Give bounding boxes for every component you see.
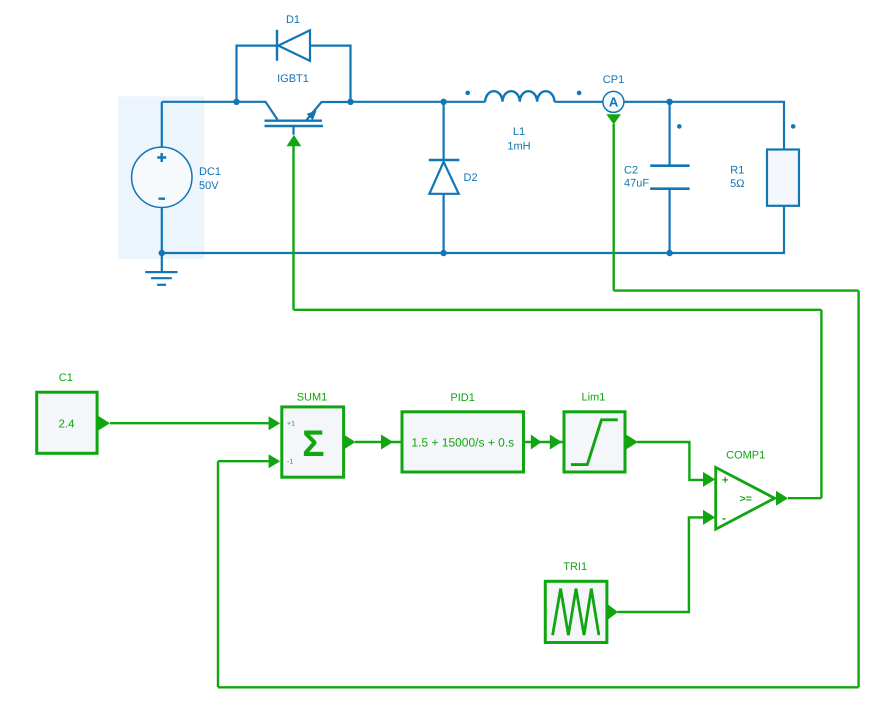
svg-text:SUM1: SUM1 — [297, 392, 328, 404]
svg-text:R1: R1 — [730, 165, 744, 177]
wire: C1 to SUM1 — [110, 422, 269, 424]
svg-text:Lim1: Lim1 — [581, 392, 605, 404]
svg-text:TRI1: TRI1 — [563, 561, 587, 573]
svg-text:D1: D1 — [286, 14, 300, 26]
svg-text:>=: >= — [740, 493, 752, 505]
arrow into SUM1 minus input — [269, 454, 281, 468]
node: D2 top junction — [440, 99, 446, 105]
polarity dot left of L1 — [465, 91, 470, 96]
wire: top rail from L1 to CP1 — [554, 101, 603, 103]
resistor R1 — [730, 150, 799, 206]
capacitor C2 — [624, 165, 690, 190]
wire: SUM1 to PID1 — [355, 441, 402, 443]
transistor IGBT1 — [237, 73, 351, 135]
diode D2 — [429, 160, 478, 194]
C1 output port arrow — [98, 416, 110, 431]
wire: feedback into SUM1 minus input — [218, 460, 269, 462]
arrow into COMP1 plus input — [703, 472, 715, 487]
current probe CP1 — [603, 74, 624, 112]
wire: feedback bottom horizontal — [218, 686, 859, 688]
svg-text:47uF: 47uF — [624, 178, 649, 190]
polarity dot right of L1 — [577, 91, 582, 96]
wire: C2 bottom lead — [668, 190, 670, 254]
arrow into Lim1 input — [550, 435, 562, 450]
wire: gate drive vertical from COMP1 return — [292, 146, 294, 310]
svg-text:PID1: PID1 — [450, 392, 474, 404]
voltage source DC1 — [132, 147, 221, 207]
arrow into PID1 input — [381, 435, 393, 450]
wire: CP1 feedback vertical — [613, 124, 615, 291]
gate drive arrow into IGBT1 — [287, 135, 302, 146]
svg-text:2.4: 2.4 — [59, 419, 76, 431]
wire: bottom rail and R1 bottom lead — [162, 206, 784, 253]
wire: DC1 top lead — [161, 102, 163, 148]
svg-text:1.5 + 15000/s + 0.s: 1.5 + 15000/s + 0.s — [411, 436, 514, 450]
node: IGBT collector junction — [233, 99, 239, 105]
node: C2 top junction — [666, 99, 672, 105]
inductor L1 — [485, 91, 554, 152]
svg-text:DC1: DC1 — [199, 166, 221, 178]
wire: D2 top lead — [443, 102, 445, 160]
diode D1 — [277, 14, 310, 61]
node: C2 bottom junction — [666, 250, 672, 256]
svg-text:CP1: CP1 — [603, 74, 624, 86]
svg-text:+: + — [722, 474, 728, 486]
ground — [145, 253, 177, 285]
svg-text:Σ: Σ — [302, 423, 324, 464]
wire: DC1 bottom lead — [161, 207, 163, 253]
wire: feedback vertical right side down — [857, 291, 859, 688]
arrow into COMP1 minus input — [703, 510, 715, 525]
svg-text:L1: L1 — [513, 126, 525, 138]
svg-text:+1: +1 — [287, 421, 295, 428]
constant block C1 — [37, 372, 97, 453]
svg-text:COMP1: COMP1 — [726, 449, 765, 461]
wire: feedback left vertical up — [217, 461, 219, 687]
svg-text:5Ω: 5Ω — [730, 178, 744, 190]
node: ground junction — [159, 250, 165, 256]
svg-text:-: - — [722, 511, 726, 525]
PID1 output port arrow — [531, 435, 542, 450]
wire: PID1 to Lim1 — [524, 441, 565, 443]
arrow into SUM1 plus input — [269, 416, 281, 430]
wire: top rail from CP1 to R1 branch corner, down to R1 — [624, 102, 784, 150]
svg-text:IGBT1: IGBT1 — [277, 73, 309, 85]
probe output arrow below CP1 — [606, 114, 621, 124]
COMP1 output port arrow — [776, 491, 788, 506]
limiter Lim1 — [564, 392, 625, 473]
wire: top rail from DC1 to IGBT collector node — [162, 101, 237, 103]
wire: COMP1 output to corner — [788, 497, 821, 499]
polarity dot above C2 — [677, 124, 682, 129]
SUM1 output port arrow — [344, 434, 356, 449]
wire: D1 cathode branch to emitter node — [310, 46, 351, 102]
wire: C2 top lead — [668, 102, 670, 165]
wire: D1 anode branch from collector node — [237, 46, 277, 102]
polarity dot above R1 — [791, 124, 796, 129]
node: IGBT emitter junction — [347, 99, 353, 105]
TRI1 output port arrow — [608, 604, 618, 619]
svg-text:A: A — [609, 95, 619, 110]
summer SUM1 — [282, 392, 344, 478]
node: D2 bottom junction — [440, 250, 446, 256]
wire: CP1 feedback horizontal to right edge — [614, 289, 859, 291]
comparator COMP1 — [716, 449, 775, 529]
PID controller PID1 — [402, 392, 524, 472]
Lim1 output port arrow — [626, 435, 638, 450]
wire: top rail from IGBT emitter node to L1 — [351, 101, 486, 103]
svg-text:-1: -1 — [287, 459, 293, 466]
svg-text:1mH: 1mH — [507, 141, 530, 153]
wire: TRI1 to COMP1 minus input — [618, 517, 704, 612]
selection highlight around DC1 — [118, 96, 205, 259]
wire: COMP1 return vertical right — [820, 310, 822, 498]
svg-text:C2: C2 — [624, 165, 638, 177]
svg-text:C1: C1 — [59, 372, 73, 384]
svg-text:D2: D2 — [464, 172, 478, 184]
wire: Lim1 to COMP1 plus input — [637, 442, 703, 480]
wire: D2 bottom lead — [443, 194, 445, 254]
triangle generator TRI1 — [545, 561, 607, 643]
wire: COMP1 return horizontal — [294, 309, 822, 311]
svg-text:50V: 50V — [199, 180, 219, 192]
